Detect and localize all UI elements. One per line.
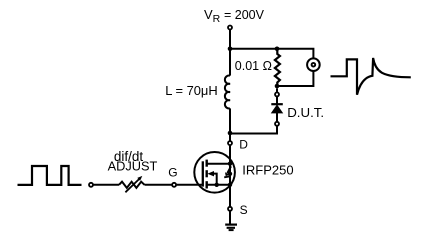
resistor 0.01 ohm (275, 49, 280, 86)
svg-text:R: R (213, 13, 221, 25)
svg-text:ADJUST: ADJUST (108, 159, 158, 174)
label VR = 200V (204, 7, 265, 25)
node: top junction (228, 47, 233, 52)
node: resistor bottom junction (275, 84, 280, 89)
source link (207, 184, 230, 186)
wire: VR terminal to top node (229, 30, 231, 49)
input terminal (89, 183, 93, 187)
pin S terminal (228, 207, 232, 211)
wire: DUT bottom to drain node (230, 126, 277, 133)
svg-text:0.01 Ω: 0.01 Ω (235, 59, 272, 73)
wire: junction to DUT top terminal (276, 88, 278, 92)
inductor L (225, 49, 230, 133)
channel segment middle (205, 170, 207, 177)
input square-wave signal (18, 166, 82, 185)
channel segment top (205, 160, 207, 167)
wire: G pin to gate (177, 184, 203, 186)
svg-text:G: G (168, 166, 177, 180)
wire: top rail to probe branch (230, 49, 313, 59)
wire: D pin into transistor (229, 146, 231, 164)
drain link (207, 163, 230, 165)
ground (225, 225, 237, 231)
svg-text:IRFP250: IRFP250 (242, 162, 293, 177)
node: resistor top junction (275, 47, 280, 52)
wire: drain to source chord (229, 164, 231, 207)
variable resistor dif/dt adjust (119, 176, 145, 192)
current probe CT (307, 58, 320, 71)
transistor Q1 internals (203, 160, 232, 207)
node: drain junction (228, 131, 233, 136)
pin D terminal (228, 141, 232, 145)
diode DUT (271, 97, 283, 121)
wire: S pin to ground (229, 211, 231, 224)
svg-text:S: S (240, 203, 248, 217)
svg-text:L = 70μH: L = 70μH (165, 83, 217, 98)
terminal VR supply (228, 26, 232, 30)
node drain link (228, 162, 232, 166)
terminal: DUT bottom (275, 122, 279, 126)
wire: input terminal to pot (93, 184, 119, 186)
svg-text:D: D (239, 138, 248, 152)
svg-text:= 200V: = 200V (224, 8, 265, 22)
wire: pot to G pin (145, 184, 172, 186)
gate bar (202, 161, 204, 186)
terminal: DUT top (275, 92, 279, 96)
body arrow (207, 171, 214, 176)
transistor Q1 IRFP250 body circle (194, 152, 235, 193)
pin G terminal (172, 183, 176, 187)
svg-text:D.U.T.: D.U.T. (287, 105, 324, 120)
body diode mark (224, 166, 232, 177)
channel segment bottom (205, 181, 207, 188)
wire: probe bottom to mid rail (277, 71, 313, 86)
wire: drain junction to D pin (229, 133, 231, 141)
output waveform: reverse recovery (331, 58, 411, 95)
